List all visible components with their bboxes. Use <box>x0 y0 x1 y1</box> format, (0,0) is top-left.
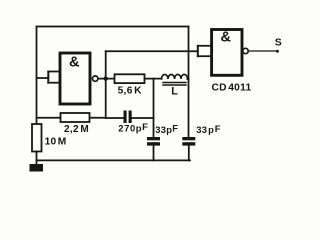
svg-text:270pF: 270pF <box>118 122 148 134</box>
wire gate1 input feed <box>37 77 49 79</box>
label 33pF #2 <box>196 123 220 135</box>
wire resistor to inductor <box>145 78 162 80</box>
inductor L <box>162 74 189 85</box>
wire left bus (node A) <box>36 27 38 125</box>
ground <box>30 160 44 171</box>
junction node X <box>104 76 108 80</box>
svg-text:CD4011: CD4011 <box>212 82 252 93</box>
wire node X to gate2 input <box>106 50 198 52</box>
capacitor 33pF #2 <box>182 137 195 160</box>
capacitor 33pF #1 <box>147 137 160 160</box>
svg-text:33pF: 33pF <box>155 123 178 135</box>
label 2,2M <box>64 124 89 135</box>
wire node X vertical <box>105 51 107 118</box>
svg-text:33pF: 33pF <box>196 123 220 135</box>
svg-text:&: & <box>221 30 232 46</box>
inverter output bubble U1a <box>93 76 98 81</box>
resistor 2.2M wires <box>37 117 106 119</box>
wire gate2 input stub <box>198 46 212 56</box>
label 5,6K <box>118 86 142 97</box>
svg-text:&: & <box>69 55 80 71</box>
svg-text:10M: 10M <box>45 137 67 148</box>
label CD4011 <box>212 82 252 93</box>
NAND gate U1b <box>212 30 242 76</box>
capacitor 270pF <box>106 111 154 124</box>
svg-text:L: L <box>171 85 178 97</box>
wire gate1 output to resistor <box>98 78 114 80</box>
wire output S <box>248 50 279 53</box>
wire right bus <box>188 27 190 138</box>
label 10M <box>45 137 67 148</box>
label S <box>275 37 282 49</box>
label L <box>171 85 178 97</box>
svg-text:5,6K: 5,6K <box>118 86 142 97</box>
wire gate1 input stub <box>48 72 60 83</box>
wire node Y vertical (tank tap) <box>153 79 155 137</box>
wire ground bus (bottom) <box>37 159 191 161</box>
resistor 10M <box>32 124 42 160</box>
svg-text:2,2M: 2,2M <box>64 124 89 135</box>
label 270pF <box>118 122 148 134</box>
resistor 5.6K <box>115 74 145 83</box>
wire top bus from node A <box>37 26 189 28</box>
svg-text:S: S <box>275 37 282 49</box>
NAND gate U1a <box>60 53 90 104</box>
label 33pF #1 <box>155 123 178 135</box>
resistor 2.2M <box>61 113 90 122</box>
inverter output bubble U1b <box>243 48 248 53</box>
